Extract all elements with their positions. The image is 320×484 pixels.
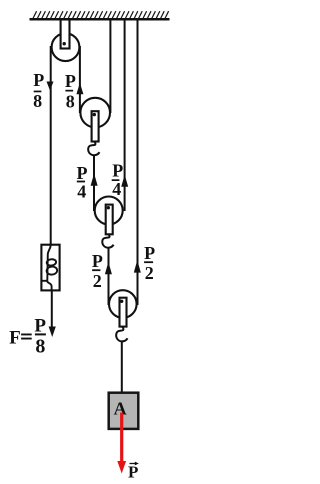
pulley 1 bracket bbox=[92, 111, 99, 141]
svg-text:4: 4 bbox=[112, 179, 121, 199]
arrow up on rope2 left strand bbox=[91, 173, 98, 186]
spring scale pointer tick bbox=[42, 280, 48, 282]
pulley 2 axle dot bbox=[107, 206, 110, 209]
weight force red arrow bbox=[120, 413, 123, 464]
svg-text:8: 8 bbox=[66, 92, 75, 112]
label P vector: over-arrow bbox=[130, 463, 138, 465]
arrow down on rope1 left strand bbox=[47, 82, 54, 91]
pulley 1 circle bbox=[80, 98, 110, 128]
svg-text:8: 8 bbox=[35, 336, 45, 358]
svg-text:2: 2 bbox=[145, 263, 154, 283]
pulley 3 axle dot bbox=[120, 300, 123, 303]
pulley 3 bracket bbox=[120, 298, 127, 327]
fixed pulley bracket bbox=[61, 20, 70, 49]
svg-text:P: P bbox=[144, 243, 155, 263]
pulley 2 circle bbox=[95, 197, 123, 225]
label P/4 right: fraction bar bbox=[112, 179, 120, 181]
wire: rope below spring scale to F arrow bbox=[51, 291, 53, 331]
pulley 1 axle dot bbox=[93, 113, 96, 116]
label F value: fraction bar bbox=[35, 333, 46, 335]
spring scale box bbox=[41, 245, 59, 291]
arrow up on rope1 middle strand bbox=[76, 83, 83, 94]
svg-text:4: 4 bbox=[77, 182, 86, 202]
pulley 2 hook bbox=[102, 234, 113, 248]
svg-text:P: P bbox=[33, 70, 44, 90]
svg-text:A: A bbox=[114, 398, 127, 418]
wire: rope2 right strand (ceiling to pulley 2) bbox=[124, 20, 126, 212]
svg-text:P: P bbox=[128, 462, 138, 481]
label P/8 right: fraction bar bbox=[65, 90, 73, 92]
label P/8 left: fraction bar bbox=[34, 91, 42, 93]
svg-text:2: 2 bbox=[93, 271, 102, 291]
spring scale coil bbox=[47, 245, 50, 281]
wire: rope1 right strand (ceiling to pulley 1) bbox=[109, 20, 111, 114]
wire: rope from pulley3 hook to block A bbox=[121, 341, 123, 393]
fixed pulley circle bbox=[52, 33, 80, 61]
svg-text:P: P bbox=[65, 71, 76, 91]
wire: rope1 middle strand (fixed pulley to pulley 1) bbox=[79, 46, 81, 113]
ceiling hatching bbox=[33, 11, 169, 18]
wire: rope1 left strand (fixed pulley to spring scale) bbox=[50, 46, 52, 245]
svg-text:P: P bbox=[34, 315, 46, 336]
ceiling beam bbox=[30, 18, 170, 21]
wire: rope2 left strand (pulley1 hook to pulley 2) bbox=[93, 155, 95, 212]
svg-text:P: P bbox=[92, 251, 103, 271]
pulley 2 bracket bbox=[106, 205, 113, 235]
wire: rope3 right strand (ceiling to pulley 3) bbox=[137, 20, 139, 306]
arrow up on rope3 left strand bbox=[105, 262, 112, 275]
svg-text:F: F bbox=[9, 328, 21, 349]
fixed pulley axle dot bbox=[62, 42, 65, 45]
wire: rope3 left strand (pulley2 hook to pulley 3) bbox=[108, 247, 110, 305]
block A bbox=[109, 393, 139, 429]
label P/2 right: fraction bar bbox=[144, 261, 153, 263]
pulley 3 hook bbox=[116, 327, 127, 342]
svg-text:8: 8 bbox=[33, 91, 42, 111]
label P/2 left: fraction bar bbox=[92, 269, 100, 271]
label P/4 left: fraction bar bbox=[77, 181, 85, 183]
pulley 3 circle bbox=[109, 290, 137, 318]
arrow down at F bbox=[49, 327, 56, 338]
svg-text:P: P bbox=[77, 163, 88, 183]
arrow up on rope3 right strand bbox=[134, 260, 141, 273]
spring scale lower link bbox=[47, 281, 52, 291]
svg-text:P: P bbox=[112, 161, 123, 181]
pulley 1 hook bbox=[88, 142, 99, 156]
arrow up on rope2 right strand bbox=[121, 175, 128, 187]
